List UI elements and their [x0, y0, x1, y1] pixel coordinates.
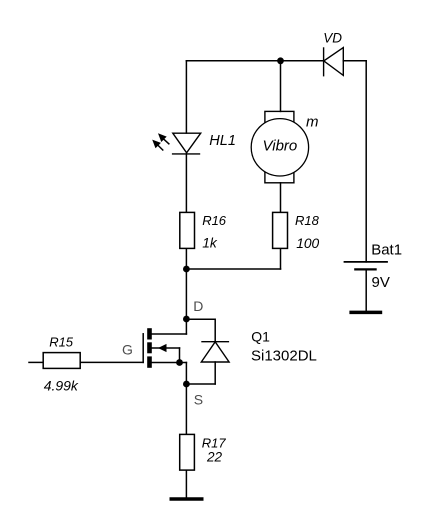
- svg-text:D: D: [193, 298, 203, 314]
- svg-text:4.99k: 4.99k: [44, 378, 79, 394]
- svg-text:VD: VD: [323, 30, 342, 45]
- svg-text:Si1302DL: Si1302DL: [251, 347, 317, 364]
- svg-text:100: 100: [296, 236, 319, 251]
- svg-text:Bat1: Bat1: [371, 241, 402, 258]
- svg-text:Vibro: Vibro: [263, 138, 298, 155]
- svg-text:9V: 9V: [372, 274, 390, 291]
- svg-text:22: 22: [206, 450, 223, 465]
- svg-text:Q1: Q1: [251, 328, 270, 344]
- svg-text:R15: R15: [49, 335, 74, 350]
- svg-text:S: S: [194, 391, 203, 407]
- svg-text:1k: 1k: [202, 236, 218, 251]
- svg-text:HL1: HL1: [209, 133, 236, 149]
- svg-text:G: G: [122, 341, 133, 357]
- svg-text:m: m: [306, 113, 319, 130]
- svg-text:R18: R18: [295, 213, 320, 228]
- svg-text:R16: R16: [202, 213, 227, 228]
- svg-text:R17: R17: [202, 435, 227, 450]
